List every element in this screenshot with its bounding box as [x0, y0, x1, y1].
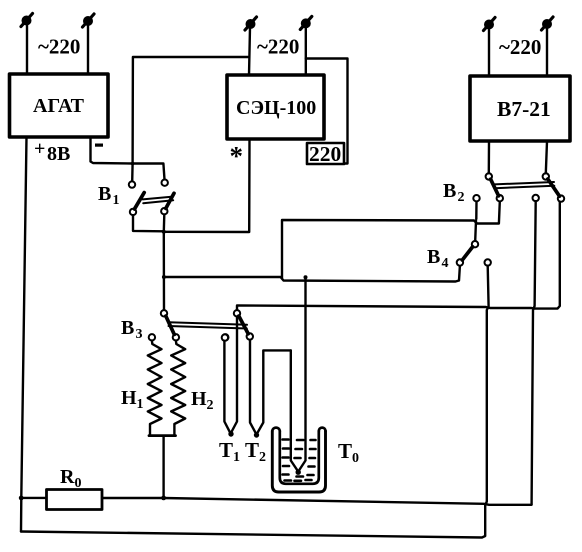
svg-text:В: В	[98, 183, 111, 205]
node J6	[19, 496, 24, 501]
wire	[133, 57, 248, 164]
wire	[474, 221, 477, 242]
wire	[26, 24, 28, 74]
svg-text:0: 0	[75, 476, 82, 491]
vessel rim caps	[272, 428, 325, 431]
label +8В	[34, 138, 70, 165]
node J3	[162, 275, 166, 279]
svg-text:1: 1	[137, 397, 144, 412]
wire to СЭЦ asterisk	[164, 140, 250, 233]
vessel inner wall	[280, 431, 319, 484]
switch В4	[457, 241, 491, 266]
plug X1	[21, 14, 33, 27]
heater Н1	[148, 341, 162, 435]
wire R0 to right	[102, 498, 532, 505]
wire	[87, 25, 89, 75]
wire net277	[164, 266, 460, 282]
node J4	[304, 275, 308, 279]
svg-text:В7-21: В7-21	[497, 97, 551, 121]
wire	[163, 232, 165, 277]
wire	[249, 28, 250, 76]
resistor R0	[47, 490, 103, 510]
label R0	[60, 466, 82, 491]
svg-text:4: 4	[442, 256, 449, 271]
plug X5	[484, 18, 496, 31]
svg-text:~220: ~220	[499, 35, 541, 59]
label Н2	[191, 388, 214, 413]
node J1	[131, 162, 135, 166]
wire	[546, 28, 548, 77]
label Т2	[245, 438, 266, 465]
wire АГАТ plus	[21, 137, 27, 532]
heater Н2	[171, 341, 185, 435]
vessel outer wall	[272, 431, 325, 492]
svg-text:R: R	[60, 466, 75, 488]
wire	[306, 59, 348, 164]
device АГАТ	[10, 74, 109, 137]
node J5	[161, 496, 166, 501]
switch В1	[129, 180, 174, 216]
svg-text:В: В	[427, 246, 440, 268]
plug X6	[542, 17, 554, 30]
node J2	[162, 230, 166, 234]
device В7-21	[470, 76, 570, 141]
svg-text:~220: ~220	[38, 35, 80, 59]
label В1	[98, 183, 120, 208]
svg-text:*: *	[230, 141, 244, 171]
svg-text:СЭЦ-100: СЭЦ-100	[236, 97, 316, 119]
svg-text:2: 2	[207, 398, 214, 413]
label В3	[121, 317, 143, 342]
wire	[532, 201, 536, 504]
svg-text:Т: Т	[338, 439, 352, 463]
plug X2	[83, 14, 95, 27]
wire	[546, 142, 547, 174]
wire	[21, 497, 46, 499]
label Т1	[219, 438, 240, 465]
svg-text:В: В	[443, 180, 456, 202]
thermometer Т2	[250, 340, 291, 438]
wire	[488, 142, 491, 174]
wire	[91, 137, 133, 164]
svg-text:8В: 8В	[47, 143, 70, 165]
label Т0	[338, 439, 359, 466]
svg-text:~220: ~220	[257, 35, 299, 59]
wire	[131, 164, 134, 182]
wire	[163, 214, 166, 231]
svg-text:Т: Т	[219, 438, 233, 462]
wire	[305, 27, 307, 75]
svg-text:Н: Н	[191, 388, 207, 410]
wire	[133, 164, 165, 180]
svg-text:1: 1	[233, 450, 240, 465]
svg-text:В: В	[121, 317, 134, 339]
liquid dashes	[283, 440, 316, 481]
heater joining bar	[149, 434, 176, 437]
thermometer Т1	[222, 317, 237, 437]
wire net308	[237, 202, 560, 310]
svg-text:+: +	[34, 138, 45, 160]
wire	[133, 215, 164, 231]
wire net to bottom	[21, 266, 489, 538]
label minus	[95, 144, 103, 147]
svg-text:0: 0	[352, 451, 359, 466]
label В4	[427, 246, 449, 271]
wire	[488, 28, 490, 76]
thermometer Т0	[291, 277, 306, 475]
switch В2	[473, 173, 564, 202]
svg-text:Н: Н	[121, 387, 137, 409]
device СЭЦ-100	[227, 75, 324, 139]
svg-text:2: 2	[458, 190, 465, 205]
svg-text:2: 2	[259, 450, 266, 465]
wire	[163, 277, 166, 310]
svg-text:3: 3	[136, 327, 143, 342]
connector 220	[307, 142, 344, 166]
plug X3	[245, 17, 257, 30]
plug X4	[300, 16, 312, 29]
wire	[282, 201, 500, 278]
label В2	[443, 180, 465, 205]
wire	[475, 201, 478, 219]
svg-text:1: 1	[113, 193, 120, 208]
wire	[162, 436, 164, 498]
switch В3	[149, 310, 253, 340]
svg-text:Т: Т	[245, 438, 259, 462]
svg-text:220: 220	[309, 142, 341, 166]
label Н1	[121, 387, 144, 412]
svg-text:АГАТ: АГАТ	[33, 95, 85, 117]
